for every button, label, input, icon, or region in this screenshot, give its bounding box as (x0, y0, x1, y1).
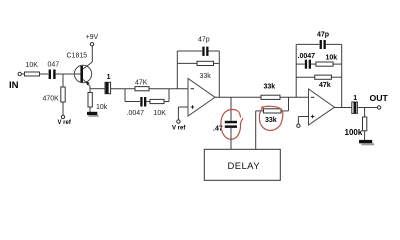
wire bottom branch left (125, 101, 140, 103)
wire 47p branch right (209, 50, 220, 52)
wire cap to 10k U2 (311, 63, 316, 65)
DELAY box (204, 149, 280, 180)
wire cap to OUT (357, 107, 377, 109)
transistor Q1 C1815 (74, 65, 91, 82)
wire 47p branch left (177, 50, 202, 52)
capacitor .47 (225, 121, 237, 124)
red circle around 33k delay (259, 106, 282, 130)
resistor 10K bottom branch (150, 99, 164, 103)
wire IN to R 10K (21, 73, 24, 75)
resistor 10k U2 feedback (316, 62, 333, 66)
node terminal U2 plus (297, 124, 300, 127)
wire cap1 to RC block (111, 88, 135, 90)
wire 0047 U2 branch left (296, 63, 304, 65)
svg-text:+9V: +9V (86, 34, 99, 41)
resistor 47K (135, 87, 149, 91)
wire 47p U2 branch left (296, 43, 319, 45)
wire U1 plus input (178, 106, 188, 108)
wire junction down to .47 cap (230, 97, 232, 120)
svg-text:C1815: C1815 (67, 53, 88, 60)
ground under emitter resistor (87, 112, 97, 115)
resistor 470K (61, 87, 65, 102)
capacitor 047 (49, 70, 51, 80)
capacitor 0047 (140, 97, 142, 107)
resistor 33k series top (261, 95, 280, 99)
resistor 10k emitter (88, 93, 92, 108)
resistor 47k U2 feedback (315, 75, 332, 79)
wire U1 feedback right rail (218, 51, 220, 97)
wire collector to +9V (91, 46, 93, 62)
wire 33k branch right (214, 62, 220, 64)
svg-text:47K: 47K (135, 79, 148, 86)
wire C047 to base (56, 73, 81, 75)
ground output (359, 140, 372, 143)
svg-text:1: 1 (107, 74, 111, 81)
op-amp U1 (188, 79, 215, 117)
svg-text:IN: IN (9, 80, 19, 91)
svg-text:.0047: .0047 (127, 110, 145, 117)
svg-text:470K: 470K (43, 96, 60, 103)
wire 10k U2 branch right (333, 63, 342, 65)
capacitor .0047 U2 (305, 60, 307, 69)
capacitor 47p U1 (202, 47, 204, 56)
svg-text:47p: 47p (317, 32, 329, 39)
op-amp U2 (309, 89, 335, 125)
wire riser to 33k delay (256, 110, 264, 112)
wire RC right junction (164, 101, 169, 103)
wire 47p U2 branch right (326, 43, 342, 45)
svg-text:.0047: .0047 (298, 53, 316, 60)
svg-text:1: 1 (353, 95, 357, 102)
svg-text:OUT: OUT (370, 93, 389, 103)
node IN terminal (18, 72, 21, 75)
wire U2 output (335, 107, 352, 109)
svg-text:DELAY: DELAY (228, 161, 261, 172)
wire U1 feedback left rail (176, 51, 178, 89)
wire 470K to V ref (62, 102, 64, 115)
wire 0047 to 10K (146, 101, 150, 103)
wire 33k delay to main run (281, 110, 289, 112)
resistor 10K input (25, 72, 40, 76)
svg-text:10K: 10K (26, 62, 39, 69)
wire 33k to U2 minus (280, 96, 309, 98)
resistor 33k U1 feedback (197, 61, 214, 65)
svg-text:047: 047 (48, 62, 60, 69)
wire RC left junction (124, 89, 126, 102)
svg-text:100k: 100k (345, 128, 363, 137)
wire to op-amp U1 minus (169, 88, 188, 90)
wire junction down to 100k (364, 108, 366, 118)
wire U2 feedback left rail (295, 44, 297, 97)
wire U2 feedback right rail (341, 44, 343, 107)
wire R10K to C047 (40, 73, 49, 75)
node V ref terminal U1 (177, 120, 180, 123)
resistor 100k (363, 117, 367, 131)
svg-text:47p: 47p (198, 36, 210, 43)
wire 47k branch left (296, 76, 315, 78)
wire 47k branch right (331, 76, 341, 78)
wire .47 cap to DELAY (230, 128, 232, 149)
svg-text:10K: 10K (154, 110, 167, 117)
wire 10k to ground (89, 107, 91, 112)
svg-text:33k: 33k (200, 73, 212, 80)
svg-text:47k: 47k (319, 82, 331, 89)
capacitor 47p U2 (320, 40, 322, 49)
svg-text:10k: 10k (326, 55, 338, 62)
svg-text:10k: 10k (96, 104, 108, 111)
wire emitter node (89, 86, 91, 92)
wire U1 output to 33k series (215, 96, 261, 98)
wire 100k to ground (364, 131, 366, 140)
wire 33k branch left (177, 62, 197, 64)
wire 47K right to junction (149, 88, 169, 90)
svg-text:33k: 33k (264, 84, 276, 91)
node +9V terminal (90, 43, 93, 46)
node V ref terminal left (61, 115, 64, 118)
node OUT terminal (377, 106, 380, 109)
red circle around .47 cap (221, 109, 243, 139)
svg-text:V ref: V ref (172, 126, 186, 132)
capacitor 1 coupling (105, 82, 111, 93)
svg-text:33k: 33k (265, 117, 277, 124)
wire DELAY right riser (255, 111, 257, 149)
capacitor 1 output (352, 102, 358, 113)
wire U2 plus input (298, 116, 308, 118)
resistor 33k delay (circled) (264, 109, 282, 113)
wire junction down to 470K (62, 74, 64, 87)
svg-text:V ref: V ref (58, 120, 72, 126)
